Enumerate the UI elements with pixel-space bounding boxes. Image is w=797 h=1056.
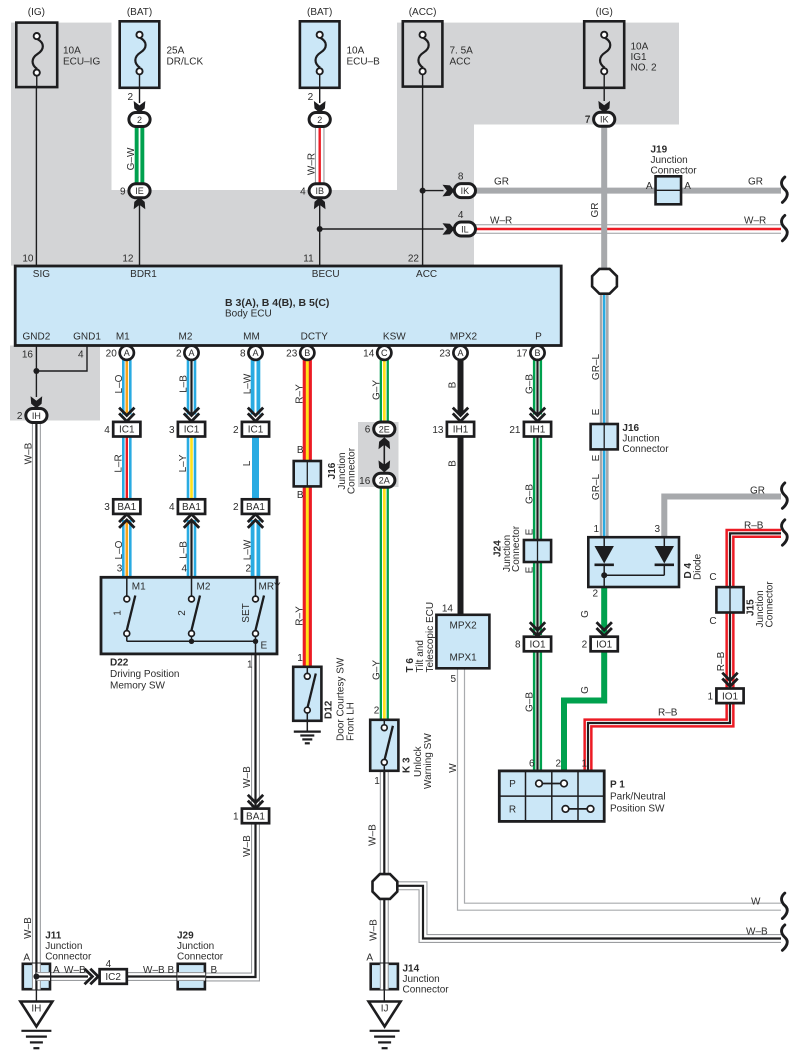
diode D4 internal link: [604, 574, 664, 576]
svg-text:8: 8: [240, 348, 246, 359]
svg-text:IH1: IH1: [530, 425, 546, 436]
label W-R vertical: [306, 153, 317, 175]
svg-text:Telescopic ECU: Telescopic ECU: [425, 602, 436, 673]
svg-text:2: 2: [555, 759, 561, 770]
svg-text:J14: J14: [403, 964, 420, 975]
svg-text:W–B: W–B: [23, 442, 34, 464]
label G upper: [580, 610, 591, 618]
wire tap ACC to IK: [423, 190, 444, 192]
arrow fuse DR/LCK output: [134, 101, 146, 113]
switch P1 box: [499, 771, 604, 822]
svg-text:4: 4: [104, 425, 110, 436]
label W-B above J14: [368, 919, 379, 941]
wire B IH1 to T6: [458, 436, 464, 615]
svg-text:Connector: Connector: [511, 525, 522, 572]
svg-text:16: 16: [359, 476, 371, 487]
junction dot inside J11: [33, 974, 39, 980]
label J15 pin C lower: [709, 616, 716, 627]
svg-text:J19: J19: [651, 144, 668, 155]
fuse IG1 NO.2 labels: [585, 7, 657, 125]
fuse ECU-B labels: [303, 7, 380, 264]
label J16 DCTY designation: [327, 447, 358, 494]
noise filter octagon upper: [592, 269, 617, 294]
svg-text:2: 2: [127, 92, 133, 103]
wire L-W MM pin to IC1: [251, 360, 261, 415]
labels A W-B after J11: [53, 965, 86, 976]
svg-text:1: 1: [593, 524, 599, 535]
svg-text:B: B: [448, 381, 459, 388]
svg-text:Junction: Junction: [177, 941, 214, 952]
fuse ACC labels: [408, 7, 473, 264]
svg-text:L: L: [242, 460, 253, 466]
label J16 DCTY pins: [297, 445, 304, 501]
svg-text:B: B: [304, 348, 310, 358]
ECU pin KSW (14 C): [363, 346, 391, 360]
continuation GR upper right: [782, 483, 788, 508]
svg-text:E: E: [525, 528, 536, 535]
wire W-B J11 to IC2: [50, 972, 89, 981]
label K3 pin 1: [374, 776, 380, 787]
connector oval IH (pin 2): [17, 409, 47, 423]
label K3 pin 2: [374, 706, 380, 717]
arrow up between 2E 2A: [379, 437, 391, 449]
label J24 pin E lower: [525, 566, 536, 573]
label L–B M2 upper: [179, 375, 190, 393]
P1 P-row contact: [536, 780, 568, 787]
arrow into IH: [31, 396, 43, 408]
svg-text:A: A: [646, 181, 653, 192]
wire W-B BA1 to J29: [206, 823, 256, 977]
diode D4 box: [588, 537, 679, 587]
wire W-R from connector 2 to IB: [315, 126, 325, 184]
background shading left column: [11, 23, 112, 190]
svg-text:1: 1: [247, 660, 253, 671]
svg-text:M1: M1: [116, 331, 130, 342]
arrow chevrons into IH1 MPX2: [453, 408, 468, 422]
svg-text:(BAT): (BAT): [307, 7, 332, 18]
svg-text:2: 2: [177, 610, 188, 616]
label G-B middle: [525, 484, 536, 504]
svg-text:10A: 10A: [63, 45, 81, 56]
svg-text:R–Y: R–Y: [294, 384, 305, 404]
svg-text:DCTY: DCTY: [301, 331, 329, 342]
wire G-W from connector 2 to IE: [135, 126, 145, 184]
svg-text:MM: MM: [243, 331, 260, 342]
junction connector J19: [656, 176, 682, 204]
svg-text:G–B: G–B: [525, 484, 536, 504]
wire B MPX2 pin to IH1: [458, 360, 464, 415]
svg-text:W–B: W–B: [367, 824, 378, 846]
arrow fuse ECU-B output: [314, 101, 326, 113]
svg-text:SET: SET: [241, 603, 252, 622]
splice IH1 MPX2 (pin 13): [432, 422, 474, 437]
svg-text:Memory SW: Memory SW: [110, 681, 166, 692]
svg-text:W–B: W–B: [23, 917, 34, 939]
svg-text:8: 8: [458, 172, 464, 183]
svg-text:2: 2: [308, 92, 314, 103]
label J14 designation: [403, 964, 450, 996]
arrow chevrons out of BA1 MM: [248, 514, 263, 528]
fuse DR/LCK 25A: [120, 21, 160, 88]
ground symbol below IJ: [370, 1031, 400, 1048]
P1 R-row contact: [562, 806, 594, 813]
P1 pin numbers: [529, 759, 588, 770]
label D22 pin 3: [117, 564, 123, 575]
label W-B above BA1: [242, 766, 253, 788]
wire R-B right edge to J15: [730, 533, 781, 587]
label D22 designation: [110, 658, 179, 692]
label W-B below BA1: [242, 835, 253, 857]
label J16-2 pin E lower: [591, 454, 602, 461]
svg-text:GR: GR: [748, 177, 763, 188]
svg-text:E: E: [591, 454, 602, 461]
svg-text:MPX1: MPX1: [450, 653, 478, 664]
svg-text:IO1: IO1: [529, 640, 546, 651]
svg-text:1: 1: [374, 776, 380, 787]
svg-text:Driving Position: Driving Position: [110, 669, 179, 680]
svg-text:IC2: IC2: [105, 972, 121, 983]
svg-text:3: 3: [654, 524, 660, 535]
label G-B upper: [525, 374, 536, 394]
svg-text:W–B: W–B: [242, 835, 253, 857]
svg-text:P: P: [509, 779, 516, 790]
svg-text:10A: 10A: [631, 41, 649, 52]
svg-text:G–W: G–W: [126, 147, 137, 170]
svg-text:BDR1: BDR1: [130, 269, 157, 280]
continuation R-B right: [782, 520, 788, 545]
label GR near IK: [494, 177, 509, 188]
svg-text:E: E: [525, 566, 536, 573]
wire G-Y KSW pin to 2E: [380, 360, 389, 424]
svg-text:1: 1: [297, 653, 303, 664]
arrow into IL: [443, 223, 455, 235]
svg-text:P: P: [535, 331, 542, 342]
label GR-L lower: [591, 474, 602, 501]
ground triangle IH: [20, 1002, 52, 1027]
svg-text:BA1: BA1: [117, 502, 136, 513]
wire W-B K3 to octagon: [380, 771, 389, 874]
label T6 pin 14: [442, 604, 454, 615]
svg-text:B: B: [297, 445, 304, 456]
fuse ACC 7.5A: [403, 21, 443, 86]
svg-text:GR–L: GR–L: [591, 354, 602, 381]
label B upper: [448, 381, 459, 388]
svg-text:GR–L: GR–L: [591, 474, 602, 501]
svg-text:IH1: IH1: [453, 425, 469, 436]
label J19: [646, 144, 697, 192]
label J24 designation: [493, 525, 523, 572]
wire GR vertical from 7IK to octagon: [601, 126, 607, 270]
svg-text:1: 1: [581, 759, 587, 770]
wire GND2 to IH: [35, 346, 37, 398]
svg-text:B: B: [211, 965, 218, 976]
arrow chevrons into IH1 P: [530, 408, 545, 422]
svg-text:A: A: [23, 953, 30, 964]
label L–B M2 lower: [179, 541, 190, 559]
svg-text:Park/Neutral: Park/Neutral: [610, 792, 666, 803]
svg-text:Warning SW: Warning SW: [423, 733, 434, 789]
svg-text:IG1: IG1: [631, 52, 648, 63]
svg-text:IO1: IO1: [722, 691, 739, 702]
svg-text:W: W: [448, 763, 459, 773]
label W-B below IH: [23, 442, 34, 464]
svg-text:W–B: W–B: [64, 965, 86, 976]
svg-text:MRY: MRY: [259, 581, 281, 592]
continuation W right: [782, 893, 788, 918]
svg-text:C: C: [709, 572, 716, 583]
label J24 pin E upper: [525, 528, 536, 535]
label J29 pin B right: [211, 965, 218, 976]
svg-text:21: 21: [509, 425, 521, 436]
Body ECU bottom pin labels: [23, 331, 543, 342]
label W-B right end: [746, 927, 768, 938]
svg-text:IH: IH: [31, 1004, 41, 1015]
label W on wire: [448, 763, 459, 773]
wire W-B through J29: [177, 972, 205, 981]
ground triangle IJ: [369, 1002, 401, 1027]
svg-text:ACC: ACC: [416, 269, 437, 280]
P1 row labels: [509, 779, 516, 816]
Body ECU title: [225, 297, 329, 320]
label G-W: [126, 147, 137, 170]
svg-text:M2: M2: [197, 581, 211, 592]
label D22 pin 4: [181, 564, 187, 575]
wire GR from IK to right edge: [475, 188, 781, 194]
label J16-2 pin E upper: [591, 408, 602, 415]
svg-text:NO. 2: NO. 2: [631, 62, 658, 73]
svg-text:ECU–IG: ECU–IG: [63, 56, 100, 67]
label D4 pin 1: [593, 524, 599, 535]
svg-text:L–R: L–R: [113, 454, 124, 472]
svg-text:GR: GR: [494, 177, 509, 188]
wire W-B IH to J11: [32, 423, 41, 965]
label B lower: [448, 460, 459, 467]
svg-text:A: A: [366, 953, 373, 964]
label T6 pin 5: [450, 674, 456, 685]
wire R-B IO1 to P1 pin 1: [588, 702, 730, 771]
connector oval 2A (pin 16): [359, 473, 395, 487]
svg-text:1: 1: [112, 610, 123, 616]
fuse ECU-IG labels: [22, 7, 100, 264]
svg-text:4: 4: [181, 564, 187, 575]
label G-B lower: [525, 692, 536, 712]
label D4 pin 2: [592, 589, 598, 600]
label W-R near IL: [490, 216, 512, 227]
svg-text:J11: J11: [45, 931, 62, 942]
svg-text:B: B: [448, 460, 459, 467]
wire R-Y DCTY pin to J16: [303, 360, 312, 462]
svg-text:3: 3: [104, 502, 110, 513]
wire W-B J11 tap to right: [36, 972, 50, 981]
svg-text:W–B: W–B: [143, 965, 165, 976]
svg-text:12: 12: [122, 254, 134, 265]
svg-text:G–B: G–B: [525, 692, 536, 712]
svg-text:IC1: IC1: [184, 425, 200, 436]
connector oval IK (pin 8): [454, 172, 475, 198]
wire L-O BA1 to D22 M1: [122, 520, 132, 578]
svg-text:J29: J29: [177, 931, 194, 942]
wire fuse DR/LCK to connector 2: [139, 88, 141, 103]
svg-text:Diode: Diode: [693, 553, 704, 580]
continuation W-B right: [782, 925, 788, 950]
ECU pin P (17 B): [516, 346, 544, 360]
svg-text:16: 16: [22, 349, 34, 360]
svg-text:4: 4: [106, 959, 112, 970]
svg-text:17: 17: [516, 348, 528, 359]
svg-text:2A: 2A: [379, 476, 390, 486]
label D12 pin 1: [297, 653, 303, 664]
svg-text:IE: IE: [135, 186, 144, 196]
wire W-R from IL to right edge: [475, 224, 781, 234]
label L–Y M2 middle: [178, 454, 189, 472]
junction connector J11: [23, 964, 50, 989]
svg-text:IB: IB: [315, 186, 324, 196]
ECU pin DCTY (23 B): [286, 346, 314, 360]
svg-text:1: 1: [707, 691, 713, 702]
wire G diode D4 to IO1: [601, 587, 607, 636]
svg-text:BA1: BA1: [246, 811, 265, 822]
label J16-2 designation: [622, 423, 669, 455]
svg-text:R–Y: R–Y: [294, 606, 305, 626]
label G-Y lower: [371, 660, 382, 680]
splice BA1 M1 (pin 3): [104, 499, 140, 514]
splice IC1 M2 (pin 3): [169, 422, 205, 437]
svg-text:P 1: P 1: [610, 780, 625, 791]
svg-text:6: 6: [529, 759, 535, 770]
label R-B on vertical: [716, 651, 727, 671]
wire G-B J24 to IO1: [533, 562, 542, 636]
arrow chevrons into IO1 G: [597, 622, 612, 636]
label W-R right end: [744, 216, 766, 227]
svg-text:Connector: Connector: [346, 447, 357, 494]
svg-text:IC1: IC1: [248, 425, 264, 436]
svg-text:11: 11: [303, 254, 314, 265]
svg-text:DR/LCK: DR/LCK: [167, 56, 204, 67]
svg-text:MPX2: MPX2: [450, 331, 478, 342]
label W right end: [751, 897, 761, 908]
svg-text:W–R: W–R: [490, 216, 512, 227]
T6 internal pin labels: [450, 621, 478, 664]
svg-text:2: 2: [374, 706, 380, 717]
wire W-B through J14: [380, 964, 389, 990]
arrow chevrons into IO1 R-B: [722, 673, 737, 687]
label J11 designation: [45, 931, 92, 963]
svg-text:GR: GR: [590, 203, 601, 218]
svg-text:W: W: [751, 897, 761, 908]
noise filter octagon lower: [373, 874, 398, 899]
arrow chevrons into IC1 MM: [248, 408, 263, 422]
arrow chevrons out of BA1 M1: [119, 514, 134, 528]
label R-B above horizontal: [658, 708, 678, 719]
switch D12 box: [293, 667, 321, 721]
svg-text:23: 23: [439, 348, 451, 359]
svg-text:R–B: R–B: [744, 520, 764, 531]
ground below D12: [294, 732, 321, 744]
arrow chevrons into BA1 E: [248, 795, 263, 809]
svg-text:(IG): (IG): [28, 7, 45, 18]
svg-text:2: 2: [17, 411, 23, 422]
background shading top right block: [474, 23, 679, 125]
svg-text:K 3: K 3: [402, 757, 413, 773]
ECU T6 Tilt and Telescopic box: [436, 615, 489, 669]
label J29 designation: [177, 931, 224, 963]
svg-text:M2: M2: [179, 331, 193, 342]
svg-text:14: 14: [363, 348, 375, 359]
svg-text:2: 2: [592, 589, 598, 600]
label L–O M1 upper: [114, 374, 125, 393]
junction connector J29: [178, 964, 205, 989]
wire W-B IC2 to J29: [127, 972, 178, 981]
splice BA1 M2 (pin 4): [169, 499, 205, 514]
wire tap BECU to IL: [320, 228, 444, 230]
fuse IG1 NO.2 10A: [584, 21, 624, 88]
junction dot GND1-GND2: [33, 368, 39, 374]
svg-text:A: A: [188, 348, 194, 358]
arrow chevrons into IC1 M2: [184, 408, 199, 422]
wire L-B BA1 to D22 M2: [187, 520, 197, 578]
wire W-B D22 E to BA1: [251, 653, 260, 807]
svg-text:Body ECU: Body ECU: [225, 308, 272, 319]
wire GND1 join: [36, 346, 87, 372]
fuse ECU-B 10A: [300, 21, 340, 88]
background shading ACC column: [397, 23, 474, 190]
label L MM middle: [242, 460, 253, 466]
arrow chevrons into IO1 G-B: [530, 622, 545, 636]
svg-text:13: 13: [432, 425, 444, 436]
wire IB to ECU BECU pin: [319, 197, 321, 266]
Body ECU box B3(A) B4(B) B5(C): [15, 266, 561, 346]
svg-text:2: 2: [317, 115, 322, 125]
label R-Y lower: [294, 606, 305, 626]
svg-text:C: C: [381, 348, 388, 358]
label D22 pin 2: [245, 564, 251, 575]
diode D4 left diode element: [595, 538, 614, 575]
splice BA1 MM (pin 2): [233, 499, 269, 514]
wire G IO1 to P1 pin 2: [564, 652, 604, 772]
svg-text:G–Y: G–Y: [371, 660, 382, 680]
wire W T6 MPX1 to right edge: [461, 668, 781, 907]
svg-text:G–Y: G–Y: [371, 380, 382, 400]
svg-text:(IG): (IG): [596, 7, 613, 18]
connector oval IB (pin 4): [300, 184, 330, 198]
svg-text:BA1: BA1: [182, 502, 201, 513]
svg-text:W–B: W–B: [746, 927, 768, 938]
svg-text:5: 5: [450, 674, 456, 685]
wire fuse ECU-B to connector 2: [319, 88, 321, 103]
svg-text:Position SW: Position SW: [610, 804, 665, 815]
wire W-B octagon branch to right edge: [398, 886, 781, 939]
labels W-B B before J29: [143, 965, 175, 976]
arrow into IK: [443, 185, 455, 197]
wire L IC1 to BA1 MM: [252, 436, 259, 500]
svg-text:B 3(A), B 4(B), B 5(C): B 3(A), B 4(B), B 5(C): [225, 297, 329, 309]
svg-text:IO1: IO1: [596, 640, 613, 651]
svg-text:L–W: L–W: [243, 373, 254, 394]
svg-text:L–Y: L–Y: [178, 454, 189, 472]
svg-text:IH: IH: [32, 411, 41, 421]
D12 contacts and blade: [304, 667, 315, 732]
ground symbol below IH: [21, 1031, 51, 1048]
svg-text:W–B: W–B: [242, 766, 253, 788]
svg-text:20: 20: [106, 348, 118, 359]
svg-text:Front LH: Front LH: [346, 702, 357, 741]
wire G-B IO1 to P1 pin 6: [533, 652, 542, 772]
svg-text:L–O: L–O: [114, 540, 125, 559]
label GR-L upper: [591, 354, 602, 381]
svg-text:SIG: SIG: [33, 269, 50, 280]
svg-text:22: 22: [408, 254, 420, 265]
svg-text:14: 14: [442, 604, 454, 615]
